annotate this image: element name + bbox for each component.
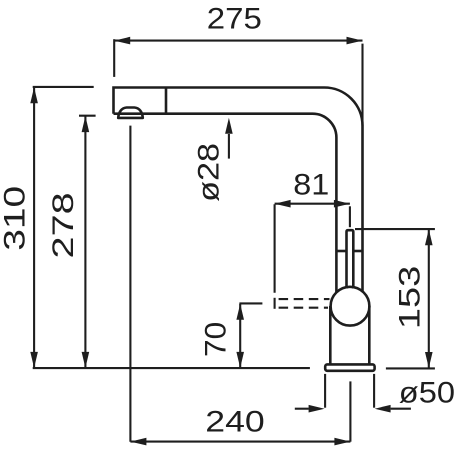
dimension 70 top arrowhead: [236, 304, 244, 320]
diameter 28 arrowhead: [225, 118, 233, 134]
dimension 310 line: [33, 87, 35, 368]
svg-text:278: 278: [47, 192, 80, 258]
svg-text:240: 240: [205, 406, 265, 439]
svg-text:310: 310: [0, 186, 32, 251]
dimension 310 bottom arrowhead: [30, 352, 38, 368]
dimension 278 line: [84, 116, 86, 368]
dimension 81 right arrowhead: [334, 200, 350, 208]
spout head divider line: [165, 88, 168, 114]
pulled-out hose phantom top dashed line: [279, 298, 330, 300]
diameter 50 right arrow tail: [391, 408, 411, 410]
faucet spout outer outline (top + corner arc + right pipe edge): [114, 88, 363, 292]
dimension 240 line: [130, 441, 350, 443]
dimension 278 extension line: [79, 115, 96, 117]
svg-text:70: 70: [200, 322, 233, 357]
faucet axis leader line: [349, 381, 351, 441]
dimension 81 left arrowhead: [275, 200, 291, 208]
dimension 81 right extension line: [349, 206, 351, 227]
dimension 275 right arrowhead: [347, 37, 363, 45]
svg-text:275: 275: [207, 2, 262, 35]
dimension 153 top arrowhead: [425, 229, 433, 245]
dimension 70 extension line: [239, 302, 262, 304]
ball joint circle: [331, 287, 370, 326]
svg-text:153: 153: [393, 266, 426, 330]
svg-text:ø50: ø50: [399, 376, 455, 409]
dimension 81 left extension line (hose end): [274, 204, 276, 293]
diameter 50 right extension line: [373, 374, 375, 408]
countertop base line right segment: [386, 367, 435, 369]
dimension 70 bottom arrowhead: [236, 352, 244, 368]
pulled-out hose phantom end cap: [274, 298, 276, 309]
dimension 310 top arrowhead: [30, 87, 38, 103]
base flange: [325, 364, 374, 370]
countertop base line left segment: [33, 367, 310, 369]
dimension 153 bottom arrowhead: [425, 352, 433, 368]
faucet spout inner outline (bottom + inner corner arc + left pipe edge): [114, 114, 337, 293]
aerator axis leader line: [129, 126, 131, 442]
faucet body right edge: [368, 306, 371, 364]
pipe joint crossbar left segment: [336, 250, 346, 253]
aerator dome on spout head: [118, 108, 143, 118]
pipe joint crossbar right segment: [353, 250, 362, 253]
dimension 240 right arrowhead: [334, 438, 350, 446]
pulled-out hose phantom bottom dashed line: [279, 307, 328, 309]
svg-text:81: 81: [293, 168, 329, 201]
dimension 275 left arrowhead: [114, 37, 130, 45]
dimension 240 left arrowhead: [130, 438, 146, 446]
dimension 153 top extension line: [355, 228, 435, 230]
dimension 275 line: [114, 40, 362, 42]
dimension 153 line: [428, 229, 430, 368]
dimension 278 top arrowhead: [82, 116, 90, 132]
dimension 278 bottom arrowhead: [82, 352, 90, 368]
faucet body left edge: [329, 306, 332, 364]
diameter 50 right arrowhead: [375, 405, 391, 413]
spray handle lever tube: [347, 230, 354, 288]
dimension 70 line: [239, 304, 241, 368]
dimension 81 line: [275, 203, 350, 205]
dimension 275 right extension line: [361, 44, 363, 126]
dimension 275 left extension line: [113, 39, 115, 77]
diameter 50 left arrow tail: [295, 408, 309, 410]
dimension 310 top extension line: [33, 86, 94, 88]
diameter 28 leader arrow tail: [228, 134, 230, 159]
diameter 50 left extension line: [324, 374, 326, 408]
svg-text:ø28: ø28: [193, 143, 226, 202]
diameter 50 left arrowhead: [309, 405, 325, 413]
